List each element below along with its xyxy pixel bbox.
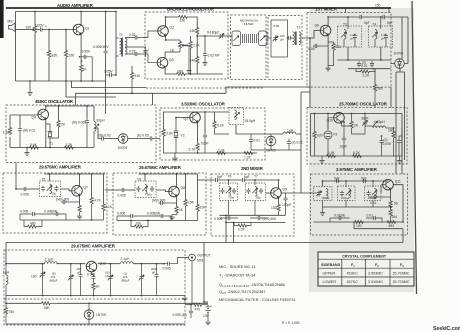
capacitor output right xyxy=(399,136,402,139)
svg-text:+: + xyxy=(45,25,47,29)
transistor Q3 xyxy=(157,57,168,68)
wire cap to tank xyxy=(28,188,40,190)
resistor 1K emitter xyxy=(78,205,81,213)
svg-text:680: 680 xyxy=(44,306,50,310)
left black margin bar xyxy=(0,0,4,38)
wire bias rail xyxy=(6,302,208,304)
wire between 24K resistors xyxy=(196,35,198,56)
svg-text:10K: 10K xyxy=(26,26,33,30)
capacitors (2) 0.005 output xyxy=(381,136,383,139)
svg-text:LOWER: LOWER xyxy=(323,280,337,284)
svg-text:µH: µH xyxy=(350,37,354,41)
svg-text:1/20V: 1/20V xyxy=(35,23,44,27)
svg-text:SeekIC.com: SeekIC.com xyxy=(433,326,460,332)
resistor 180 xyxy=(393,128,395,131)
output jack xyxy=(189,254,196,261)
capacitor to T2 xyxy=(287,36,293,40)
capacitor 0.02 lower coupling xyxy=(125,53,133,55)
tuned transformer T5 xyxy=(40,177,61,196)
svg-text:180: 180 xyxy=(388,129,394,133)
resistor 22K series in rail xyxy=(178,15,188,18)
tuned tank 100pF second xyxy=(338,181,356,201)
svg-text:8.2K: 8.2K xyxy=(353,151,361,155)
svg-text:5pF: 5pF xyxy=(334,177,340,181)
capacitors (2)0.01 interstage right xyxy=(288,139,290,140)
svg-text:0.01: 0.01 xyxy=(254,139,261,143)
inductor 2.1µH b xyxy=(120,262,133,264)
wire Y2 to bottom xyxy=(175,139,177,153)
wire left feed drop xyxy=(5,243,7,264)
wire bottom rail oscillator xyxy=(10,147,94,149)
svg-text:(E) 0.05: (E) 0.05 xyxy=(137,134,149,138)
resistor 24K upper xyxy=(196,27,199,35)
wire Q11 emitter xyxy=(390,189,392,201)
resistor 2K xyxy=(351,114,353,122)
svg-text:5.1K: 5.1K xyxy=(105,205,113,209)
svg-text:0.02 MF: 0.02 MF xyxy=(208,54,220,58)
wire oscillator output to 3.975 stage xyxy=(401,128,403,174)
tuning box 8-90 xyxy=(271,20,288,57)
capacitor 0.05 emitter bypass xyxy=(319,45,328,47)
svg-text:BALANCED MODULATOR: BALANCED MODULATOR xyxy=(167,7,215,12)
svg-text:29.675MC AMPLIFIER: 29.675MC AMPLIFIER xyxy=(39,165,82,170)
svg-text:15K: 15K xyxy=(188,201,195,205)
svg-text:453KC OSCILLATOR: 453KC OSCILLATOR xyxy=(35,99,74,104)
svg-text:100: 100 xyxy=(136,222,142,226)
wire Q6 emitter xyxy=(327,35,329,66)
wire Q5 collector xyxy=(197,112,199,113)
capacitor 0.005 battery side xyxy=(190,305,192,309)
wire under tanks xyxy=(338,47,391,69)
variable capacitor 9-180 balance trimmer xyxy=(219,34,225,38)
transistor Q8 xyxy=(169,186,180,197)
wire T1 primary feed xyxy=(116,12,119,76)
capacitor 0.005 output coupling xyxy=(164,263,166,265)
wire carrier reinsertion riser xyxy=(72,81,311,105)
wire tank bottom rail 3.975 xyxy=(323,201,391,208)
svg-text:pF: pF xyxy=(77,270,81,274)
svg-text:3.503MC OSCILLATOR: 3.503MC OSCILLATOR xyxy=(181,102,226,107)
svg-text:0.005: 0.005 xyxy=(118,194,126,198)
wire top rail xyxy=(163,111,229,113)
wire Q11 base xyxy=(381,185,383,193)
diode 1N709 xyxy=(395,59,405,69)
capacitor 0.01 bottom a xyxy=(337,216,343,220)
svg-text:µH: µH xyxy=(280,38,284,42)
svg-text:10K: 10K xyxy=(200,206,207,210)
shaded panel behind right-hand column xyxy=(309,8,414,292)
svg-text:R × K 1,000: R × K 1,000 xyxy=(282,321,300,325)
capacitor 5pF mid xyxy=(241,178,247,182)
svg-text:29.675MC AMPLIFIER: 29.675MC AMPLIFIER xyxy=(139,165,182,170)
capacitor 0.005 bottom middle a xyxy=(129,214,135,218)
svg-text:3.3K: 3.3K xyxy=(66,143,74,147)
svg-text:+: + xyxy=(81,60,83,64)
dashed box 3.503mc oscillator xyxy=(160,108,265,160)
svg-text:Q2: Q2 xyxy=(170,26,175,30)
wire 15K leads xyxy=(65,30,67,82)
svg-text:1N709: 1N709 xyxy=(96,313,106,317)
svg-text:457KC: 457KC xyxy=(347,280,359,284)
transistor Q12 xyxy=(86,261,97,272)
svg-text:56: 56 xyxy=(394,202,398,206)
wire 24K bottom to rail xyxy=(196,64,198,74)
choke 1µH xyxy=(283,132,296,134)
svg-text:680: 680 xyxy=(178,70,184,74)
svg-text:T2: T2 xyxy=(297,26,301,30)
wire jack drop xyxy=(185,261,192,305)
input transducer xyxy=(232,31,241,46)
svg-text:Q11: Q11 xyxy=(395,180,401,184)
ground battery xyxy=(207,315,209,320)
electrolytic center tap capacitor xyxy=(125,47,146,48)
resistor 1K Q8 emitter xyxy=(175,206,178,214)
svg-text:Y1: Y1 xyxy=(49,142,53,146)
capacitor 5pF second coupling xyxy=(381,15,387,19)
top heavy supply line xyxy=(6,7,391,9)
resistor 82K xyxy=(47,50,50,58)
wire Q5 emitter xyxy=(197,122,199,143)
transformer T2 xyxy=(293,26,302,46)
svg-text:0.005: 0.005 xyxy=(21,193,29,197)
variable capacitor 30pF xyxy=(364,114,366,121)
svg-text:25.700MC: 25.700MC xyxy=(393,272,410,276)
svg-text:FILTER: FILTER xyxy=(244,22,253,26)
svg-text:150: 150 xyxy=(375,4,381,8)
resistor 5.6K bottom xyxy=(29,146,39,149)
svg-text:470: 470 xyxy=(195,308,201,312)
svg-text:1N709: 1N709 xyxy=(266,149,276,153)
resistor 1K emitter xyxy=(79,65,82,73)
svg-text:30pF: 30pF xyxy=(361,117,369,121)
svg-text:3.975MC AMPLIFIER: 3.975MC AMPLIFIER xyxy=(336,167,378,172)
dashed box carrier stage T2 xyxy=(268,16,302,80)
capacitor (2)0.005 mixer bottom xyxy=(256,216,262,220)
resistor 680 bottom 3.975 xyxy=(387,220,397,223)
wire Q3 collector to balance pot xyxy=(165,52,180,58)
variable capacitor 100 tune xyxy=(42,264,44,272)
svg-text:5pF: 5pF xyxy=(361,176,367,180)
wire Q8 emitter xyxy=(176,196,178,206)
dashed box 29.675mc amplifier row3 middle xyxy=(113,173,206,235)
capacitor 2000pF xyxy=(156,264,158,273)
wire emitter resistor down xyxy=(278,212,280,215)
svg-text:Q7: Q7 xyxy=(84,186,89,190)
svg-text:50µ: 50µ xyxy=(256,196,261,200)
wire Q5 base xyxy=(176,118,190,130)
svg-text:(M) 0.005: (M) 0.005 xyxy=(72,121,86,125)
capacitor 0.01 base xyxy=(19,115,21,127)
resistor 3.3K left xyxy=(8,127,11,135)
resistor 2.2K bottom right xyxy=(216,151,226,154)
wire tank top rail xyxy=(323,181,389,187)
tuned transformer T7 xyxy=(246,175,266,201)
wire Q2 emitter to balance pot xyxy=(166,35,180,40)
svg-text:453KC: 453KC xyxy=(347,272,359,276)
svg-text:460: 460 xyxy=(30,222,36,226)
resistor 2K xyxy=(58,106,60,120)
wire trimmer to filter input xyxy=(225,35,233,37)
resistor 1.2K interstage xyxy=(244,151,254,154)
capacitor 0.01 Q11 xyxy=(377,196,391,198)
resonator discs xyxy=(243,34,257,43)
wire diode leads xyxy=(391,17,409,174)
wire Q12 base chain xyxy=(91,272,93,275)
wire top rail bottom stage xyxy=(6,263,164,265)
svg-text:29.675MC AMPLIFIER: 29.675MC AMPLIFIER xyxy=(71,244,116,249)
capacitor (E) 0.05 xyxy=(128,138,148,140)
svg-text:880µF: 880µF xyxy=(122,279,130,283)
svg-text:15K: 15K xyxy=(69,54,76,58)
capacitor 0.005 3KV on supply branch xyxy=(104,49,108,55)
dashed box 453kc oscillator xyxy=(6,105,156,163)
svg-text:180µµ: 180µµ xyxy=(322,196,330,200)
svg-text:100: 100 xyxy=(271,206,277,210)
wire to diode xyxy=(106,138,119,140)
resistor 15K Q11 xyxy=(390,208,392,211)
svg-text:1/35V: 1/35V xyxy=(82,50,91,54)
svg-text:100pF: 100pF xyxy=(282,203,291,207)
svg-text:T7: T7 xyxy=(254,175,258,179)
wire cap to Q1 base xyxy=(44,29,73,31)
svg-text:Q10: Q10 xyxy=(327,119,333,123)
battery 13V xyxy=(203,305,212,319)
capacitor 0.02 upper coupling xyxy=(125,37,133,39)
svg-text:100: 100 xyxy=(356,224,362,228)
wire T2 to mixer and oscillator tap xyxy=(303,31,321,108)
resistor 470 to battery xyxy=(185,304,191,306)
tuned transformer T6 xyxy=(220,175,238,201)
resistor 8.2K xyxy=(214,112,216,121)
wire mod output node xyxy=(197,35,219,37)
diode 1N709 sideband switch xyxy=(118,134,128,144)
wiper arrow of 500 pot xyxy=(182,45,189,68)
inductor 1.75µH tank xyxy=(365,125,372,127)
svg-text:100µµ: 100µµ xyxy=(341,196,349,200)
varactor diode 1N709 xyxy=(88,303,90,310)
svg-text:2.1µH: 2.1µH xyxy=(45,258,54,262)
svg-text:9-180µF: 9-180µF xyxy=(207,31,219,35)
svg-text:25.700MC OSCILLATOR: 25.700MC OSCILLATOR xyxy=(339,102,388,107)
inductor 2.1µH a xyxy=(45,262,58,264)
capacitor 0.005 bottom b xyxy=(54,212,60,216)
svg-text:8.2K: 8.2K xyxy=(217,124,225,128)
svg-text:2.1µH: 2.1µH xyxy=(121,257,130,261)
capacitor 62pF feedback xyxy=(204,112,206,133)
svg-text:MIC - SHURE MC-11: MIC - SHURE MC-11 xyxy=(219,264,256,269)
capacitor 0.01 bottom b xyxy=(372,216,378,220)
tuned coil box 18.5µH xyxy=(229,108,256,125)
svg-text:50µ: 50µ xyxy=(230,196,235,200)
svg-text:MIC: MIC xyxy=(8,20,15,24)
resistor 1K base xyxy=(92,283,95,291)
dashed box mechanical filter xyxy=(231,15,267,80)
wire rail end down xyxy=(387,16,391,18)
wire Q10 collector xyxy=(341,113,343,115)
dashed separator below balanced modulator xyxy=(146,87,264,89)
wire rail to 24K chain xyxy=(188,17,197,27)
resistor 560 to oscillator xyxy=(374,69,376,84)
dashed divider inside bottom amplifier box xyxy=(4,298,185,300)
wire tank to Q8 base xyxy=(156,190,169,192)
wire rail to Q9 collector xyxy=(247,179,279,181)
wire bottom rail to right xyxy=(186,73,223,75)
svg-text:50µ: 50µ xyxy=(147,193,152,197)
wire mic to pot wiper xyxy=(16,29,32,31)
microphone MIC xyxy=(8,20,16,32)
wire Q1 emitter down xyxy=(80,34,82,65)
capacitor 5pF coupling a xyxy=(335,179,341,183)
capacitor 0.005 Q8 emitter xyxy=(164,202,177,204)
transistor Q4 xyxy=(38,109,49,120)
svg-text:Y2: Y2 xyxy=(181,134,185,138)
svg-text:pF: pF xyxy=(152,270,156,274)
svg-text:1.2K: 1.2K xyxy=(238,228,246,232)
svg-text:Q1: Q1 xyxy=(85,27,90,31)
resistor 750 left xyxy=(5,296,7,307)
tuned transformer T6a xyxy=(135,178,156,198)
svg-text:25.700MC: 25.700MC xyxy=(393,280,410,284)
resistor 15K xyxy=(185,174,187,199)
ground first tank xyxy=(322,201,324,211)
svg-text:(M)0.005: (M)0.005 xyxy=(152,199,165,203)
svg-text:1µH: 1µH xyxy=(287,129,294,133)
capacitor 5pF coupling b xyxy=(362,179,368,183)
table frame xyxy=(318,252,414,286)
svg-text:5pF: 5pF xyxy=(244,175,250,179)
svg-text:3.3K: 3.3K xyxy=(166,132,174,136)
svg-text:1.5K: 1.5K xyxy=(328,151,336,155)
wire Q9 emitter xyxy=(278,197,280,204)
ground Q6 emitter xyxy=(326,66,331,71)
resistor 4.7K xyxy=(91,174,93,197)
tuned transformer T3 xyxy=(338,17,362,47)
svg-text:2ND MIXER: 2ND MIXER xyxy=(241,166,264,171)
transistor Q5 xyxy=(190,112,201,123)
wire top rail middle xyxy=(139,174,198,187)
ground 3.503 oscillator xyxy=(174,153,176,156)
wire bottom rail row3 left xyxy=(20,219,103,221)
wire Q4 collector rail xyxy=(46,106,94,110)
resistor 3.3K bottom xyxy=(64,146,74,149)
svg-text:0.005/3KV: 0.005/3KV xyxy=(93,45,109,49)
crystal Y2 xyxy=(174,130,179,140)
ground audio amplifier xyxy=(27,90,32,95)
variable capacitor (1)170-880µF xyxy=(141,264,143,275)
diode 1N709 interstage xyxy=(270,134,272,136)
svg-text:684: 684 xyxy=(389,224,395,228)
svg-text:0.005(M): 0.005(M) xyxy=(44,210,57,214)
wire battery feed from bus xyxy=(204,243,208,303)
capacitor 0.01 a xyxy=(357,61,361,67)
wire top rail mixer xyxy=(220,179,241,181)
transistor Q2 xyxy=(158,26,169,37)
svg-text:880µF: 880µF xyxy=(50,279,58,283)
ground balance pot xyxy=(186,68,191,73)
svg-text:5pF: 5pF xyxy=(364,21,370,25)
wire mic loop and rails xyxy=(15,12,116,82)
resistor 56 Q11 emitter xyxy=(389,201,392,209)
svg-text:+: + xyxy=(210,305,212,309)
transistor Q6 xyxy=(320,25,331,36)
output transducer xyxy=(259,31,268,46)
dashed box 25.700mc oscillator xyxy=(307,108,407,165)
svg-text:1.75µH: 1.75µH xyxy=(374,120,385,124)
crystal Y1 xyxy=(46,124,50,131)
svg-text:MECHANICAL FILTER - COLLINS: MECHANICAL FILTER - COLLINS F455Y31 xyxy=(219,297,296,302)
svg-text:1.2K: 1.2K xyxy=(244,156,252,160)
svg-text:5pF: 5pF xyxy=(387,21,393,25)
svg-text:Y3: Y3 xyxy=(333,133,337,137)
wire pot to coupling cap xyxy=(35,29,38,31)
svg-text:SIDEBAND: SIDEBAND xyxy=(321,263,341,267)
ground Q7 xyxy=(79,212,81,215)
capacitor 0.005 base xyxy=(91,275,95,281)
wire bottom rail xyxy=(163,152,257,154)
wire top rail row3 left xyxy=(45,174,105,187)
wire Q3 emitter to bottom xyxy=(165,67,176,74)
svg-text:1N709: 1N709 xyxy=(118,146,128,150)
svg-text:0.005: 0.005 xyxy=(163,266,171,270)
svg-text:24K: 24K xyxy=(190,29,197,33)
capacitor 0.01 b xyxy=(370,61,374,67)
svg-text:pF: pF xyxy=(106,274,110,278)
svg-text:560: 560 xyxy=(378,87,384,91)
svg-text:510: 510 xyxy=(135,74,141,78)
wire output middle to 2nd mixer xyxy=(198,179,214,181)
resistor 510 under T1 xyxy=(131,66,133,72)
supply stub right xyxy=(388,8,390,13)
svg-text:0.01(M): 0.01(M) xyxy=(334,214,345,218)
svg-text:(M) 0.01: (M) 0.01 xyxy=(99,134,111,138)
resistor 2.2K xyxy=(190,36,192,41)
wire Q9 output to 3.975 amplifier xyxy=(282,192,314,194)
wire bottom rail 3.975 xyxy=(314,222,404,229)
capacitor 100pF output xyxy=(285,193,287,196)
svg-text:+: + xyxy=(148,48,150,52)
capacitor 200pF xyxy=(80,264,82,273)
svg-text:50Ω: 50Ω xyxy=(197,259,204,263)
svg-text:1.2K: 1.2K xyxy=(363,74,371,78)
capacitor 0.005 emitter xyxy=(66,201,80,203)
svg-text:0.005 (M): 0.005 (M) xyxy=(173,313,187,317)
svg-text:.1µH: .1µH xyxy=(2,271,10,275)
balance potentiometer 500 xyxy=(179,40,181,41)
wire drops to output stage xyxy=(226,223,234,243)
svg-text:Q4: Q4 xyxy=(32,116,37,120)
svg-text:154: 154 xyxy=(392,215,398,219)
svg-text:(2) 0.005: (2) 0.005 xyxy=(263,217,276,221)
ground bottom rail right xyxy=(182,296,187,301)
capacitor 0.01 output xyxy=(100,136,106,140)
capacitor 5pF first coupling xyxy=(358,15,364,19)
wire supply branch x105.6 xyxy=(105,12,107,82)
dashed box balanced modulator xyxy=(145,12,228,79)
wire interstage ground rail xyxy=(251,149,301,151)
svg-text:13V: 13V xyxy=(203,314,210,318)
supply stub left xyxy=(345,8,347,13)
svg-text:100: 100 xyxy=(31,275,37,279)
resistor 10K xyxy=(197,174,199,204)
wire cap to tank middle xyxy=(126,189,135,191)
resistor 5.1K xyxy=(102,174,104,204)
svg-text:2.2K: 2.2K xyxy=(218,148,226,152)
resistor 680 series xyxy=(41,302,51,305)
svg-text:0.005: 0.005 xyxy=(383,142,391,146)
dashed box 2nd mixer xyxy=(211,174,294,236)
svg-text:82µH: 82µH xyxy=(97,119,106,123)
wire pot top/bottom xyxy=(34,12,36,82)
